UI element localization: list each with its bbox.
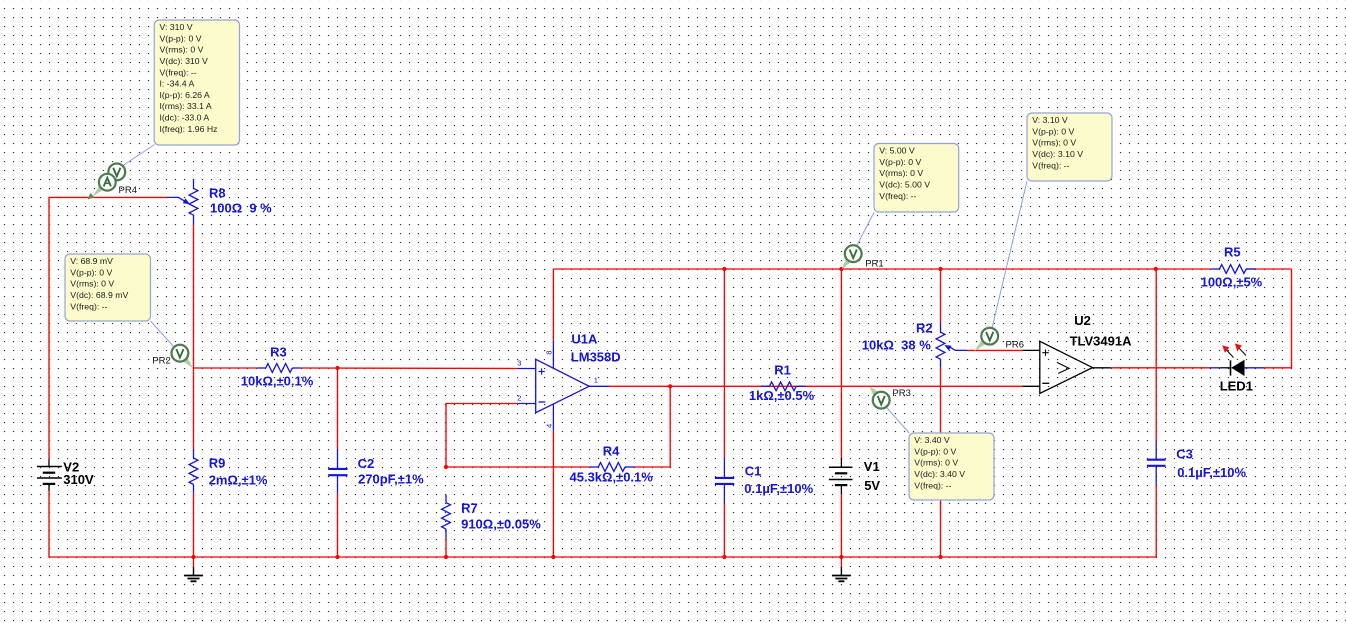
capacitor C3: [1147, 441, 1247, 486]
svg-text:2mΩ,±1%: 2mΩ,±1%: [209, 472, 268, 487]
probe PR1: [842, 213, 884, 270]
wire R4 right up to output node: [634, 386, 670, 467]
probe readout box PR3: [909, 433, 994, 500]
svg-text:C2: C2: [358, 456, 375, 471]
svg-text:LED1: LED1: [1220, 378, 1253, 393]
wire R8 bottom down to node at R3 row: [193, 224, 195, 368]
svg-text:R2: R2: [916, 321, 933, 336]
resistor R4: [570, 443, 654, 484]
svg-text:10kΩ,±0.1%: 10kΩ,±0.1%: [241, 374, 314, 389]
svg-text:5V: 5V: [864, 478, 880, 493]
resistor R7: [442, 495, 542, 539]
svg-text:910Ω,±0.05%: 910Ω,±0.05%: [461, 517, 541, 532]
svg-text:V(freq): --: V(freq): --: [70, 301, 107, 311]
svg-text:V(dc): 3.10 V: V(dc): 3.10 V: [1032, 149, 1083, 159]
svg-text:PR4: PR4: [119, 185, 137, 196]
svg-text:V(p-p): 0 V: V(p-p): 0 V: [879, 157, 921, 167]
wire R3 row left segment: [194, 367, 258, 369]
svg-text:TLV3491A: TLV3491A: [1070, 333, 1133, 348]
svg-text:8: 8: [545, 351, 554, 355]
svg-text:100Ω,±5%: 100Ω,±5%: [1201, 274, 1263, 289]
wire U1A pin8 rail up to +5V top bus: [552, 269, 554, 341]
svg-text:270pF,±1%: 270pF,±1%: [358, 472, 424, 487]
svg-text:PR1: PR1: [865, 259, 883, 270]
svg-text:V(rms): 0 V: V(rms): 0 V: [879, 168, 923, 178]
svg-text:V(rms): 0 V: V(rms): 0 V: [1032, 138, 1076, 148]
svg-text:V: 3.40 V: V: 3.40 V: [914, 435, 950, 445]
wire C3 branch: [1155, 269, 1157, 441]
svg-text:R5: R5: [1224, 245, 1241, 260]
capacitor C1: [715, 458, 814, 503]
svg-text:100Ω 9 %: 100Ω 9 %: [210, 201, 272, 216]
svg-text:V: 310 V: V: 310 V: [160, 22, 193, 32]
svg-text:PR2: PR2: [152, 356, 170, 367]
svg-text:V(rms): 0 V: V(rms): 0 V: [70, 279, 114, 289]
wire U2 output to LED1: [1111, 367, 1210, 369]
resistor R5: [1201, 245, 1263, 290]
wire U1A pin2 to R7/R4 node: [446, 404, 518, 468]
probe readout box PR4: [154, 20, 239, 145]
svg-text:R9: R9: [209, 456, 226, 471]
svg-text:3: 3: [517, 358, 521, 367]
wire R3 right to U1A pin3: [301, 367, 518, 370]
svg-text:45.3kΩ,±0.1%: 45.3kΩ,±0.1%: [570, 470, 654, 485]
svg-text:I(p-p): 6.26 A: I(p-p): 6.26 A: [160, 90, 210, 100]
capacitor C2: [328, 449, 424, 493]
svg-text:0.1µF,±10%: 0.1µF,±10%: [1177, 465, 1246, 480]
op-amp U1A LM358D: [517, 331, 620, 430]
svg-text:V: 3.10 V: V: 3.10 V: [1032, 115, 1068, 125]
probe readout box PR2: [65, 254, 151, 321]
wire R5 row: [1156, 268, 1212, 270]
svg-text:V(p-p): 0 V: V(p-p): 0 V: [160, 33, 202, 43]
comparator U2 TLV3491A: [1022, 313, 1132, 394]
svg-text:C3: C3: [1176, 447, 1193, 462]
svg-text:V(freq): --: V(freq): --: [879, 191, 916, 201]
svg-text:2: 2: [517, 394, 521, 403]
resistor R2 (potentiometer): [862, 321, 968, 368]
probe PR3: [869, 386, 911, 433]
svg-text:V(dc): 5.00 V: V(dc): 5.00 V: [879, 179, 930, 189]
probe PR4 (V and A): [88, 145, 155, 200]
svg-text:V(freq): --: V(freq): --: [914, 480, 951, 490]
LED1 emission arrows: [1226, 350, 1234, 358]
wire V1 branch: [840, 269, 842, 458]
svg-text:V: 68.9 mV: V: 68.9 mV: [70, 256, 113, 266]
svg-text:V(p-p): 0 V: V(p-p): 0 V: [914, 446, 956, 456]
svg-text:U1A: U1A: [571, 331, 598, 346]
svg-text:LM358D: LM358D: [571, 350, 621, 365]
wire U1A output row to U2 minus input: [609, 385, 1022, 387]
svg-text:V(dc): 68.9 mV: V(dc): 68.9 mV: [70, 290, 128, 300]
battery V1 5V: [829, 458, 881, 494]
svg-text:PR6: PR6: [1006, 340, 1024, 351]
wire bottom ground bus: [194, 556, 1157, 558]
svg-text:R1: R1: [774, 363, 791, 378]
svg-text:V(dc): 3.40 V: V(dc): 3.40 V: [914, 469, 965, 479]
svg-text:V1: V1: [864, 459, 880, 474]
junction dots: [335, 366, 339, 370]
probe readout box PR1: [874, 144, 959, 213]
svg-text:V(freq): --: V(freq): --: [160, 67, 197, 77]
ground at x=841.4: [832, 557, 851, 581]
ground at x=193.5: [184, 557, 203, 581]
probe PR6: [974, 181, 1027, 351]
battery V2 310V: [37, 459, 94, 491]
svg-text:C1: C1: [745, 464, 762, 479]
svg-text:V(rms): 0 V: V(rms): 0 V: [914, 458, 958, 468]
wire top-left from V2+ corner to R8 wiper: [49, 197, 167, 459]
svg-text:PR3: PR3: [892, 388, 910, 399]
svg-text:I(rms): 33.1 A: I(rms): 33.1 A: [160, 101, 212, 111]
svg-text:I(dc): -33.0 A: I(dc): -33.0 A: [160, 113, 210, 123]
svg-text:V(dc): 310 V: V(dc): 310 V: [160, 56, 208, 66]
wire R2 wiper to U2 plus input: [968, 349, 1023, 351]
wire C1 branch: [723, 269, 725, 458]
svg-text:R7: R7: [461, 501, 478, 516]
svg-text:V(freq): --: V(freq): --: [1032, 160, 1069, 170]
svg-text:I(freq): 1.96 Hz: I(freq): 1.96 Hz: [160, 124, 218, 134]
svg-text:1kΩ,±0.5%: 1kΩ,±0.5%: [749, 388, 815, 403]
resistor R1: [749, 363, 815, 403]
svg-text:310V: 310V: [63, 472, 94, 487]
svg-text:V(p-p): 0 V: V(p-p): 0 V: [70, 267, 112, 277]
probe readout box PR6: [1027, 113, 1112, 181]
svg-text:R3: R3: [270, 345, 287, 360]
probe PR2: [151, 321, 193, 368]
wire R4 row left: [446, 466, 590, 468]
wire C2 branch: [337, 368, 339, 449]
resistor R3: [241, 345, 314, 389]
wire U1A pin4 rail down to bus: [552, 431, 554, 557]
svg-text:I: -34.4 A: I: -34.4 A: [160, 79, 195, 89]
resistor R8 (potentiometer): [167, 179, 272, 224]
svg-text:1: 1: [594, 376, 598, 385]
wire V2 bottom to ground bus: [49, 491, 194, 557]
svg-text:V(p-p): 0 V: V(p-p): 0 V: [1032, 126, 1074, 136]
LED1: [1210, 343, 1264, 393]
svg-text:R4: R4: [603, 443, 620, 458]
svg-text:0.1µF,±10%: 0.1µF,±10%: [744, 481, 813, 496]
svg-text:U2: U2: [1074, 313, 1091, 328]
svg-text:10kΩ 38 %: 10kΩ 38 %: [862, 338, 931, 353]
wire LED1 right up through R5 loop: [1264, 269, 1292, 368]
wire R9 branch: [193, 368, 195, 449]
wire R2 branch: [940, 269, 942, 324]
svg-text:R8: R8: [209, 186, 226, 201]
wire top +5V bus: [553, 268, 1155, 270]
svg-text:4: 4: [545, 424, 554, 428]
wire R7 bottom to bus: [445, 539, 447, 557]
svg-text:V(rms): 0 V: V(rms): 0 V: [160, 45, 204, 55]
svg-text:V: 5.00 V: V: 5.00 V: [879, 146, 915, 156]
resistor R9: [189, 449, 268, 493]
